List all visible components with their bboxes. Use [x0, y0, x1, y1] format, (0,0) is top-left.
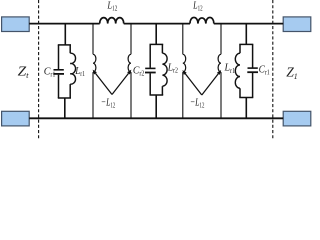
resonator 2: stem to bottom rail — [155, 95, 157, 118]
capacitor C_r2 top plate — [145, 67, 155, 69]
capacitor C_r1 (right) bottom plate — [247, 71, 258, 73]
capacitor C_r1 bottom plate — [53, 73, 64, 75]
resonator 3: stem from top rail — [245, 24, 247, 45]
coupling wire V1-left (vertical) upper — [92, 24, 94, 55]
coupling wire V2-left (vertical) upper — [182, 24, 184, 55]
wire: top rail segment between the two series coils — [124, 23, 190, 25]
inductor L_r2 branch wire lower — [161, 86, 163, 95]
port box top-left — [2, 17, 30, 32]
coupling inductor bumps on V2-right wire (facing left) — [218, 54, 221, 72]
inductor L12 (series, first) — [100, 18, 124, 24]
resonator 1: bottom tie — [58, 97, 71, 99]
port box bottom-left — [2, 111, 30, 126]
resonator 1: stem to bottom rail — [64, 98, 66, 118]
coupling inductor bumps on V2-left wire (facing right) — [183, 54, 186, 72]
reference plane right (dashed line) — [272, 0, 274, 139]
resonator 1: top tie — [58, 44, 71, 46]
inductor L_r2 coil — [162, 53, 167, 86]
coupling wire V1-right lower — [130, 72, 132, 118]
wire: bottom rail — [29, 117, 283, 119]
inductor L12 (series, second) — [190, 17, 214, 23]
coupling inductor bumps on V1-right wire (facing left) — [128, 54, 131, 72]
coupling wire V1-left lower — [92, 72, 94, 118]
port box bottom-right — [283, 111, 311, 126]
reference plane left (dashed line) — [38, 0, 40, 139]
arrow -L12 second right — [202, 74, 219, 95]
resonator 2: bottom tie — [150, 94, 164, 96]
resonator 2: stem from top rail — [155, 24, 157, 45]
capacitor C_r1 branch wire lower — [58, 75, 60, 98]
capacitor C_r1 branch wire upper — [58, 45, 60, 69]
coupling wire V2-left lower — [182, 72, 184, 118]
port box top-right — [283, 17, 311, 32]
capacitor C_r1 (right) branch wire upper — [252, 44, 254, 67]
wire: top rail segment from left port to series coil L12a — [29, 23, 100, 25]
coupling inductor bumps on V1-left wire (facing right) — [93, 54, 96, 72]
capacitor C_r1 top plate — [54, 69, 64, 71]
capacitor C_r2 bottom plate — [145, 72, 156, 74]
inductor L_r1 branch wire lower — [69, 84, 71, 98]
inductor L_r1 (right) branch wire upper — [239, 44, 241, 53]
coupling wire V2-right lower — [220, 72, 222, 118]
inductor L_r1 (right) branch wire lower — [239, 88, 241, 97]
capacitor C_r2 branch wire upper — [149, 44, 151, 67]
arrow -L12 left (from vertex to left coil) — [96, 73, 113, 94]
inductor L_r1 (right) coil facing left — [235, 53, 240, 88]
resonator 3: stem to bottom rail — [245, 98, 247, 119]
coupling wire V2-right (vertical) upper — [220, 24, 222, 55]
capacitor C_r1 (right) branch wire lower — [252, 73, 254, 98]
coupling wire V1-right (vertical) upper — [130, 24, 132, 55]
arrow -L12 right (from vertex to right coil) — [112, 73, 129, 94]
inductor L_r1 coil — [70, 53, 75, 84]
resonator 3: top tie — [239, 43, 253, 45]
resonator 1: stem from top rail — [64, 24, 66, 45]
inductor L_r1 branch wire upper — [69, 45, 71, 53]
inductor L_r2 branch wire upper — [161, 44, 163, 53]
capacitor C_r1 (right) top plate — [248, 67, 258, 69]
wire: top rail segment from series coil L12b to right port — [214, 23, 283, 25]
resonator 2: top tie — [150, 43, 164, 45]
resonator 3: bottom tie — [239, 97, 253, 99]
arrow -L12 second left — [185, 74, 202, 95]
capacitor C_r2 branch wire lower — [149, 73, 151, 95]
